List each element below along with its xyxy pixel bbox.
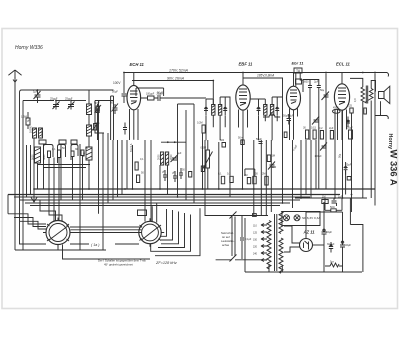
- wire bottom-left step 3: [20, 221, 47, 229]
- svg-text:2000: 2000: [158, 154, 161, 160]
- antenna A1: [8, 70, 21, 250]
- wire AVC rail: [95, 101, 104, 134]
- wire wafer2 top entry 1: [156, 203, 158, 223]
- svg-text:100: 100: [272, 166, 277, 169]
- wire: [88, 115, 90, 126]
- svg-text:0,2M: 0,2M: [197, 122, 203, 125]
- svg-text:10000: 10000: [30, 125, 33, 133]
- wire: [242, 140, 244, 189]
- svg-text:9µµF: 9µµF: [94, 101, 100, 105]
- switch contact box: [252, 214, 256, 217]
- dial lamp LP2: [294, 215, 300, 221]
- svg-text:50Ω: 50Ω: [330, 206, 335, 209]
- coil L8 (osc): [166, 152, 169, 165]
- wire AZ11 cathode to B+: [306, 212, 343, 239]
- wire: [144, 140, 146, 222]
- svg-text:0,1: 0,1: [52, 148, 56, 151]
- svg-text:5000: 5000: [32, 154, 35, 160]
- wire: [318, 94, 320, 141]
- tube EBF11 V2: [236, 73, 250, 141]
- wire: [244, 218, 246, 272]
- svg-text:4500: 4500: [333, 107, 339, 110]
- wire: [126, 140, 128, 189]
- wire: [167, 165, 169, 195]
- wire: [342, 110, 344, 198]
- capacitor C1: [53, 101, 60, 110]
- svg-text:0,15: 0,15: [311, 127, 316, 130]
- resistor R2: [48, 151, 51, 158]
- capacitor C14: [257, 103, 261, 115]
- wire: [310, 140, 312, 198]
- wire: [270, 140, 272, 212]
- rotary switch S1 wafer: [43, 218, 73, 248]
- power transformer T4 primary: [267, 221, 271, 269]
- svg-text:B.E.S.A: B.E.S.A: [130, 143, 133, 152]
- svg-text:240: 240: [253, 253, 258, 256]
- wire wafer1 top feed 2: [49, 189, 62, 222]
- wire: [229, 140, 231, 197]
- coil L7 (osc): [161, 152, 164, 165]
- wire T2 bottoms: [259, 115, 278, 140]
- output transformer T3 core: [366, 86, 367, 104]
- svg-text:1µF: 1µF: [338, 196, 343, 199]
- capacitor C31: [346, 117, 350, 128]
- wire: [63, 245, 151, 260]
- wire T1 top right: [220, 97, 230, 140]
- grid cap box: [296, 79, 302, 84]
- wire: [117, 140, 119, 197]
- resistor R12: [267, 155, 270, 162]
- mains switch blade: [230, 212, 237, 219]
- trimmer capacitor C3: [34, 90, 41, 103]
- resistor R31 with arrow: [95, 105, 102, 113]
- trimmer capacitor C6: [112, 104, 119, 115]
- capacitor C24: [332, 198, 340, 206]
- power transformer T4 secondary HT: [279, 212, 283, 234]
- svg-text:2M: 2M: [262, 173, 265, 176]
- wire T2 top left: [250, 99, 265, 105]
- wire: [121, 140, 123, 195]
- wire wafer2 top entry 2: [151, 206, 153, 221]
- svg-text:500: 500: [220, 139, 225, 142]
- power transformer T4 core: [275, 214, 277, 271]
- wire: [309, 94, 311, 141]
- wire bottom bus: [245, 271, 362, 273]
- wire AVC rail pair: [111, 96, 114, 140]
- resistor R23: [330, 131, 333, 140]
- capacitor C20: [317, 79, 321, 94]
- coil L5 (band coil): [35, 147, 41, 163]
- wire antenna feed: [20, 90, 114, 93]
- capacitor C17: [259, 142, 263, 144]
- svg-text:5000: 5000: [43, 154, 46, 160]
- svg-text:2000: 2000: [170, 154, 173, 160]
- capacitor C12: [204, 103, 208, 115]
- wire wafer2 nest 4: [158, 213, 185, 248]
- trimmer capacitor C27: [320, 143, 327, 151]
- wire: [350, 225, 363, 273]
- wire loop a: [44, 145, 54, 164]
- svg-text:50µF: 50µF: [347, 127, 353, 130]
- wire wafer1 top feed 1: [40, 200, 56, 221]
- wire: [30, 145, 32, 195]
- wire row link 1: [38, 164, 90, 166]
- switch contact row: [39, 140, 77, 144]
- IF transformer T2 coil b: [270, 105, 273, 116]
- capacitor C9: [163, 170, 167, 181]
- svg-text:50µF: 50µF: [157, 91, 163, 95]
- wire long vertical: [22, 101, 24, 251]
- mains voltage taps: [261, 224, 267, 262]
- trimmer capacitor C22: [312, 117, 319, 125]
- tube V3: [287, 73, 301, 141]
- wire ECH plate feed: [132, 81, 213, 105]
- wire: [253, 140, 255, 216]
- wire 185V line: [243, 78, 283, 140]
- resistor R24: [349, 130, 353, 139]
- trimmer capacitor C8: [171, 155, 178, 162]
- wire HT bus: [295, 197, 367, 199]
- wire: [204, 140, 206, 216]
- svg-text:30µ: 30µ: [95, 121, 100, 125]
- wire: [305, 140, 307, 195]
- resistor R33: [284, 132, 287, 138]
- capacitor C19: [308, 79, 312, 94]
- box Tfk: [138, 210, 147, 216]
- wire: [323, 203, 325, 226]
- svg-text:Lautstärke-: Lautstärke-: [221, 239, 235, 243]
- wire: [282, 140, 284, 203]
- wire T1 bottoms: [206, 115, 225, 140]
- wire loop b: [58, 145, 66, 164]
- resistor R17: [265, 176, 268, 185]
- svg-text:Horny: Horny: [387, 134, 393, 150]
- wire: [79, 144, 81, 250]
- svg-text:220: 220: [253, 246, 258, 249]
- resistor R35: [364, 108, 367, 114]
- wire padder row: [136, 88, 164, 96]
- wire: [159, 165, 161, 189]
- svg-text:0,1µF: 0,1µF: [241, 136, 244, 143]
- svg-text:ter auf: ter auf: [222, 235, 230, 239]
- resistor R15: [247, 178, 250, 184]
- wire output stage feed: [303, 80, 319, 93]
- svg-text:EBF 11: EBF 11: [239, 61, 254, 66]
- svg-text:5000: 5000: [83, 151, 86, 157]
- capacitor C11: [179, 168, 183, 179]
- wire T1 top left: [206, 99, 213, 105]
- speaker LS: [379, 86, 390, 103]
- svg-text:2µF: 2µF: [314, 81, 319, 84]
- IF transformer T2 coil a: [264, 105, 267, 116]
- svg-text:32µF: 32µF: [326, 230, 332, 234]
- wire: [56, 100, 70, 102]
- svg-text:ECH 11: ECH 11: [130, 62, 145, 67]
- wire: [7, 195, 9, 214]
- wire: [193, 104, 195, 203]
- resistor R1: [26, 112, 30, 129]
- svg-text:32µF: 32µF: [345, 243, 351, 247]
- wire: [265, 140, 267, 216]
- wire wafer1 to wafer2 link 2: [71, 229, 142, 231]
- svg-text:150: 150: [253, 239, 258, 242]
- wire: [58, 158, 60, 222]
- svg-text:0,1: 0,1: [218, 173, 222, 176]
- resistor R6: [141, 96, 158, 100]
- wire top B+ bus: [124, 73, 389, 77]
- svg-text:100µµF: 100µµF: [146, 92, 155, 95]
- wire: [95, 100, 114, 102]
- wire: [48, 158, 50, 190]
- resistor R20: [306, 130, 309, 139]
- svg-text:SF 6,3V 0,3A: SF 6,3V 0,3A: [302, 216, 321, 220]
- resistor R8: [137, 175, 140, 183]
- wire: [269, 264, 282, 272]
- svg-text:90V, 26mA: 90V, 26mA: [167, 77, 185, 81]
- wire: [318, 140, 320, 189]
- rotary switch S2 wafer: [136, 218, 164, 246]
- wire: [349, 198, 351, 225]
- svg-text:50µF: 50µF: [112, 90, 118, 94]
- capacitor C5: [122, 94, 127, 103]
- wire top RF row: [23, 100, 54, 102]
- resistor R4: [71, 151, 74, 157]
- capacitor C30: [329, 242, 333, 253]
- IF transformer T1 coil a: [212, 105, 215, 116]
- svg-text:Horny W336: Horny W336: [15, 45, 43, 51]
- wire wafer2 nest 2: [161, 210, 173, 240]
- wire: [98, 101, 100, 214]
- wire: [72, 157, 74, 201]
- wire main bus 4: [20, 199, 300, 201]
- wire main bus 5: [25, 202, 290, 204]
- svg-text:0,3: 0,3: [354, 98, 357, 102]
- svg-text:20µF: 20µF: [346, 164, 352, 167]
- svg-text:1M: 1M: [244, 174, 247, 177]
- tube ECH11 V1: [127, 73, 141, 141]
- wire: [150, 140, 152, 222]
- resistor R11: [241, 140, 244, 145]
- wire: [82, 156, 84, 201]
- svg-text:1,5M: 1,5M: [21, 115, 27, 119]
- capacitor C4: [95, 104, 100, 140]
- wire: [300, 140, 302, 198]
- svg-text:25µµF: 25µµF: [50, 97, 58, 101]
- wire: [362, 102, 364, 199]
- coil L6 (band coil): [86, 147, 92, 160]
- svg-text:1µF: 1µF: [33, 90, 38, 94]
- resistor R9: [202, 125, 205, 133]
- svg-text:25µµF: 25µµF: [65, 97, 73, 101]
- wire loop c: [71, 145, 78, 161]
- resistor R27 zigzag: [325, 263, 343, 267]
- resistor R26: [325, 209, 342, 212]
- wire wafer1 to wafer2 link 1: [70, 226, 142, 228]
- wire: [202, 133, 204, 189]
- wire: [60, 144, 62, 200]
- power transformer T4 heater winding: [279, 238, 283, 273]
- trimmer capacitor C21: [322, 92, 330, 101]
- trimmer capacitor C18: [268, 162, 275, 170]
- resistor R7: [135, 162, 138, 170]
- output transformer T3 secondary: [368, 89, 373, 101]
- svg-text:achse: achse: [222, 243, 230, 247]
- wire wafer2 nest 6: [155, 208, 200, 256]
- wire: [71, 100, 86, 102]
- wire speaker return: [380, 101, 382, 115]
- capacitor C23 mains: [240, 216, 244, 259]
- capacitor C28: [344, 162, 348, 175]
- svg-text:170V, 52mA: 170V, 52mA: [169, 68, 189, 72]
- potentiometer R34 volume: [203, 140, 213, 189]
- capacitor C26 (32uF): [340, 212, 345, 272]
- wire wafer2 nest 1: [161, 209, 167, 236]
- wire wafer1 to wafer2 link 3: [70, 232, 142, 234]
- wire: [325, 142, 327, 189]
- resistor R28: [189, 172, 192, 178]
- capacitor C29: [123, 123, 127, 135]
- svg-text:100µF: 100µF: [315, 155, 323, 158]
- wire main bus 6: [30, 205, 280, 207]
- wire: [37, 163, 39, 189]
- wire: [315, 140, 317, 189]
- wire main bus 3: [14, 196, 310, 198]
- svg-text:1M: 1M: [322, 196, 325, 199]
- wire: [345, 170, 347, 195]
- svg-text:µF: µF: [27, 119, 30, 123]
- svg-text:ECL 11: ECL 11: [336, 61, 350, 66]
- wire: [33, 138, 35, 189]
- wire: [26, 145, 28, 197]
- wire: [123, 73, 125, 94]
- wire with hop: [263, 114, 280, 117]
- svg-text:µF: µF: [172, 172, 175, 175]
- svg-text:Netzschal-: Netzschal-: [221, 231, 234, 235]
- coil L3: [87, 104, 92, 115]
- wire bottom long: [15, 249, 106, 251]
- svg-text:0,2: 0,2: [319, 127, 323, 130]
- svg-text:185V,0,8mA: 185V,0,8mA: [257, 74, 274, 78]
- wire: [132, 145, 134, 189]
- wire: [88, 160, 90, 189]
- wire: [177, 104, 179, 197]
- capacitor C13: [223, 103, 227, 115]
- coil L1: [33, 128, 37, 138]
- resistor R5: [81, 150, 84, 156]
- wire: [218, 142, 220, 189]
- wire: [350, 78, 363, 87]
- svg-text:50µF: 50µF: [288, 115, 294, 118]
- capacitor C2: [68, 101, 75, 110]
- resistor R25: [322, 200, 328, 204]
- svg-text:ZF=128 kHz: ZF=128 kHz: [155, 261, 177, 265]
- svg-text:( 1a ): ( 1a ): [91, 243, 99, 247]
- resistor R13: [221, 176, 224, 184]
- wire: [351, 113, 353, 212]
- ground G1: [31, 189, 37, 202]
- capacitor C7: [154, 95, 206, 101]
- resistor R16: [253, 176, 256, 184]
- wire long vertical: [20, 93, 47, 245]
- wire: [325, 198, 342, 210]
- svg-text:1M: 1M: [272, 155, 275, 158]
- wire: [112, 140, 114, 200]
- coil L2: [39, 128, 43, 138]
- wire: [313, 244, 325, 246]
- wire T2 top right: [272, 97, 282, 105]
- svg-text:µF: µF: [162, 171, 165, 174]
- wire coil top link: [161, 141, 186, 143]
- shaft coupling arrow 1a: [70, 243, 139, 245]
- coil L4: [87, 125, 92, 136]
- svg-text:5000: 5000: [303, 81, 309, 84]
- wire: [374, 74, 376, 206]
- svg-text:0,5M: 0,5M: [201, 147, 207, 150]
- svg-text:50µ: 50µ: [339, 153, 342, 158]
- resistor R10: [222, 143, 226, 148]
- svg-text:50µ: 50µ: [320, 89, 325, 92]
- wire: [53, 158, 55, 222]
- svg-text:0,3: 0,3: [227, 173, 231, 176]
- svg-text:W 336 A: W 336 A: [389, 150, 400, 186]
- svg-text:AZ 11: AZ 11: [303, 230, 316, 235]
- IF transformer T1 coil b: [218, 105, 221, 116]
- wire speaker terminal: [375, 116, 388, 120]
- svg-text:0,1: 0,1: [140, 158, 144, 161]
- wire main bus 2: [8, 194, 340, 196]
- wire: [178, 103, 195, 105]
- wire bottom-left step 2: [14, 218, 46, 227]
- wire: [260, 140, 262, 216]
- svg-text:0,25: 0,25: [347, 105, 352, 108]
- phono input TA box: [294, 68, 302, 73]
- resistor R30: [347, 177, 351, 181]
- svg-text:100V: 100V: [113, 81, 121, 85]
- wire: [107, 133, 109, 203]
- wire bottom-left step 1: [8, 214, 46, 224]
- wire row link 2: [43, 167, 86, 169]
- wire: [88, 136, 90, 147]
- capacitor C10: [173, 171, 177, 182]
- capacitor C25 (32uF): [322, 226, 327, 272]
- svg-text:µµF: µµF: [177, 152, 182, 155]
- wire: [185, 110, 187, 200]
- wire: [370, 101, 372, 199]
- svg-text:45° gedreht gezeichnet: 45° gedreht gezeichnet: [104, 263, 133, 267]
- svg-text:Ebr 11: Ebr 11: [292, 61, 305, 66]
- mains switch wires: [205, 216, 268, 262]
- resistor R19: [350, 108, 353, 113]
- svg-text:125: 125: [253, 232, 258, 235]
- resistor R14: [230, 176, 233, 182]
- resistor R21: [313, 130, 316, 139]
- resistor R3: [58, 150, 61, 158]
- wire: [102, 133, 104, 250]
- svg-text:0,1µF: 0,1µF: [245, 238, 252, 241]
- dial lamp LP1: [284, 215, 290, 221]
- wire: [43, 144, 45, 189]
- svg-text:50µF: 50µF: [256, 137, 262, 141]
- wire wafer2 nest 3: [161, 212, 179, 244]
- wire wafer2 nest 5: [151, 215, 191, 252]
- svg-text:110: 110: [253, 225, 257, 228]
- capacitor C15: [275, 103, 279, 115]
- output transformer T3 primary: [361, 87, 366, 103]
- resistor R18: [333, 109, 341, 113]
- wire: [325, 74, 327, 143]
- trimmer resistor R32: [92, 123, 99, 131]
- svg-text:2µF: 2µF: [329, 127, 334, 130]
